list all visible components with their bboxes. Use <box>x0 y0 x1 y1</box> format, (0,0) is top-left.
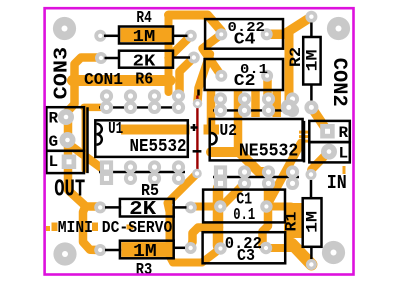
svg-text:2K: 2K <box>129 198 157 220</box>
svg-text:R1: R1 <box>282 212 300 232</box>
svg-text:NE5532: NE5532 <box>130 136 187 157</box>
svg-text:R3: R3 <box>136 260 153 279</box>
svg-text:C3: C3 <box>237 246 255 265</box>
svg-text:C2: C2 <box>234 71 256 90</box>
svg-text:R4: R4 <box>136 8 151 27</box>
svg-text:R: R <box>49 110 59 128</box>
svg-text:CON3: CON3 <box>50 47 72 100</box>
svg-text:MINI DC-SERVO: MINI DC-SERVO <box>58 219 173 238</box>
svg-text:L: L <box>49 153 59 171</box>
svg-text:G: G <box>49 133 59 151</box>
svg-text:R2: R2 <box>287 47 305 67</box>
svg-text:NE5532: NE5532 <box>239 141 298 162</box>
svg-text:1M: 1M <box>133 242 157 262</box>
svg-text:CON2: CON2 <box>327 58 350 107</box>
svg-text:R6: R6 <box>135 70 153 89</box>
svg-text:U1: U1 <box>108 119 123 138</box>
svg-text:1M: 1M <box>304 211 322 233</box>
svg-text:OUT: OUT <box>54 177 85 204</box>
svg-text:IN: IN <box>327 172 347 194</box>
svg-text:2K: 2K <box>133 52 156 71</box>
svg-text:0.1: 0.1 <box>233 205 255 224</box>
svg-text:R: R <box>339 124 349 142</box>
svg-text:C4: C4 <box>234 29 256 48</box>
svg-text:1M: 1M <box>133 28 156 47</box>
svg-text:U2: U2 <box>220 121 237 140</box>
svg-text:CON1: CON1 <box>84 70 123 89</box>
svg-text:L: L <box>339 144 349 162</box>
svg-text:1M: 1M <box>304 50 322 72</box>
